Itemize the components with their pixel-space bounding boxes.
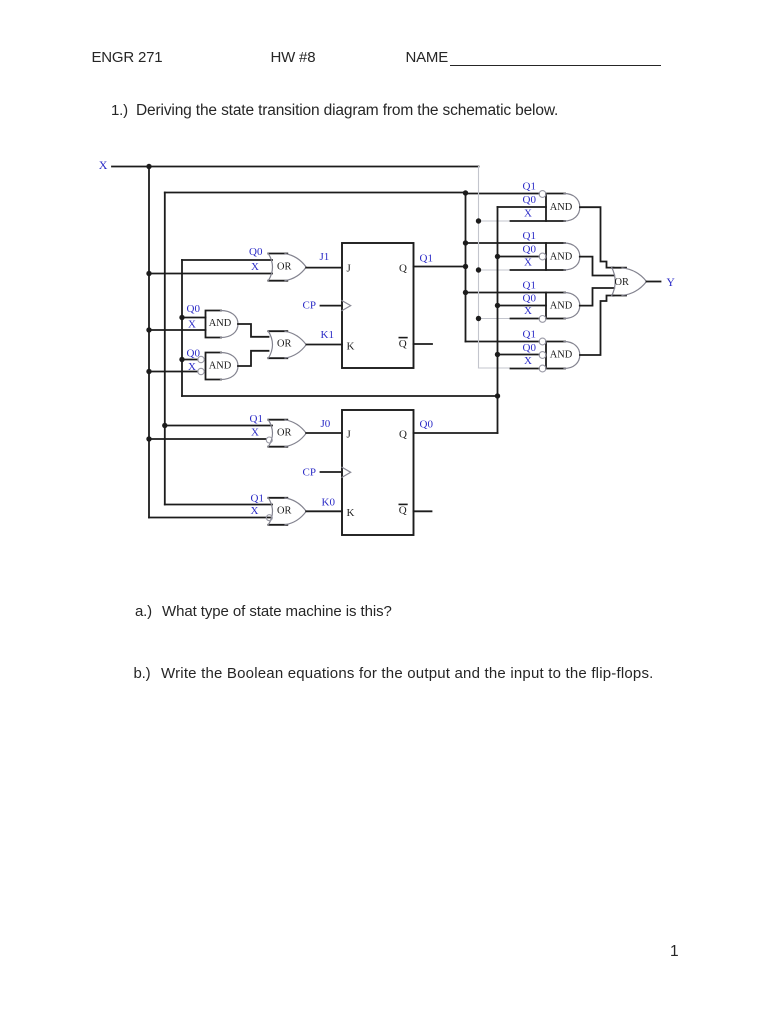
label X at U3 [251,261,259,273]
svg-text:Q: Q [399,338,407,350]
node junction X bus row3 [476,316,481,321]
node X input label [99,158,108,172]
svg-text:Q0: Q0 [523,194,537,206]
inverter bubble U5 input Q0 [198,356,204,362]
node Y output label [667,277,676,289]
wire A4 output to OR U9 [580,296,614,356]
label Q0 at U5 [187,348,201,360]
label J1 [320,251,330,263]
wire U5 output to U8 [238,351,269,366]
svg-text:AND: AND [550,251,573,262]
wire X dark seg row1 [511,220,547,222]
inverter bubble U6 input X [266,437,272,443]
wire Q0 input to AND U4 [182,317,206,319]
wire Q0 return bottom horizontal [182,395,498,397]
question 1 heading [111,103,128,118]
wire X dark seg row2 [511,269,547,271]
label Q0 at U3 [249,246,263,258]
header hw label [271,50,316,65]
label Q1 output [420,253,433,265]
question b [134,666,151,681]
svg-text:AND: AND [550,300,573,311]
inverter bubble A1 input Q1 [539,191,546,198]
label J0 [321,418,331,430]
label CP at U1 [303,300,316,312]
label Q0 at A2 [523,244,537,256]
node junction Q0 to AND U4 [179,315,184,320]
wire X top horizontal [112,166,479,168]
inverter bubble U5 input X [198,368,204,374]
svg-text:X: X [251,427,259,439]
question a [135,604,152,619]
wire Q0 right bus vertical [497,207,499,433]
wire CP input U2 [321,471,343,473]
svg-text:Q1: Q1 [250,413,263,425]
svg-text:Q: Q [399,505,407,517]
svg-text:X: X [251,505,259,517]
or-gate U7 (K0) [268,498,306,525]
and-gate U5 [206,353,239,380]
svg-text:CP: CP [303,300,316,312]
label X at A1 [524,208,532,220]
label X at U5 [188,361,196,373]
and-gate A3 [546,293,580,319]
node junction X to J1 OR [146,271,151,276]
svg-text:X: X [99,158,108,172]
svg-text:Q1: Q1 [420,253,433,265]
or-gate U3 (J1) [268,253,306,281]
wire X tap row1 (light) [479,220,511,222]
svg-text:OR: OR [277,339,292,350]
or-gate U8 (K1) [268,331,306,358]
node junction X bus row2 [476,267,481,272]
wire Q1 return top horizontal [165,192,466,194]
label Q1 at A4 [523,329,536,341]
wire Qbar stub U1 [414,343,433,345]
label CP at U2 [303,467,316,479]
svg-text:K: K [347,507,355,519]
page number [670,944,678,960]
label X at A3 [524,305,532,317]
svg-text:OR: OR [277,261,292,272]
wire X tap row4 (light) [479,367,511,369]
inverter bubble A4 input Q1 [539,338,546,345]
wire J1 output [306,267,342,269]
node junction X to J0 OR [146,436,151,441]
svg-text:X: X [251,261,259,273]
wire Q1 to AND A4 [466,341,540,343]
svg-text:AND: AND [550,350,573,361]
node junction Q0 bus row4 [495,352,500,357]
wire X input to AND U4 [149,329,206,331]
label X at U7 [251,505,259,517]
inverter bubble U7 input X [266,515,272,521]
node junction Q1 to J0 OR [162,423,167,428]
svg-text:X: X [188,319,196,331]
svg-text:Q1: Q1 [523,230,536,242]
wire X tap row2 (light) [479,269,511,271]
wire X dark seg row3 [511,318,540,320]
wire Q1 input to OR U7 [165,504,272,506]
label Q1 at A2 [523,230,536,242]
wire X tap row3 (light) [479,318,511,320]
svg-text:Q1: Q1 [523,181,536,193]
label Q0 at A3 [523,293,537,305]
svg-text:Q1: Q1 [523,329,536,341]
svg-text:J: J [347,263,352,275]
and-gate A2 [546,243,580,270]
svg-text:J: J [347,429,352,441]
svg-text:CP: CP [303,467,316,479]
wire K1 output [307,344,343,346]
wire Q1 return left vertical [164,193,166,505]
node junction X to AND1 [146,327,151,332]
wire A2 output to OR U9 [580,257,614,276]
wire Qbar stub U2 [414,510,432,512]
and-gate U4 [206,311,239,338]
wire Y output [647,281,661,283]
label K1 [321,329,334,341]
wire Q0 to AND A4 [498,354,540,356]
label Q1 at A1 [523,181,536,193]
svg-text:Q: Q [399,263,407,275]
svg-text:Q: Q [399,429,407,441]
and-gate A1 [546,194,580,222]
label Q0 at A1 [523,194,537,206]
inverter bubble A4 input Q0 [539,352,546,359]
label Q0 at U4 [187,303,201,315]
svg-text:X: X [524,208,532,220]
svg-text:OR: OR [277,505,292,516]
wire U4 output to U8 [238,324,269,337]
svg-text:AND: AND [209,318,232,329]
label Q0 at A4 [523,342,537,354]
flip-flop U2 (JK FF0) [342,410,414,535]
label Q1 at U7 [251,493,264,505]
svg-text:Q0: Q0 [420,419,434,431]
or-gate U9 (Y output) [612,267,647,296]
svg-text:K1: K1 [321,329,334,341]
wire Q1 right bus vertical [465,193,467,342]
node junction Q1 bus row2 [463,240,468,245]
flip-flop U1 (JK FF1) [342,243,414,368]
wire X input to OR U6 [149,438,266,440]
wire X left bus vertical [148,167,150,518]
svg-text:X: X [524,305,532,317]
and-gate A4 [546,342,580,369]
label X at A2 [524,257,532,269]
wire Q0 to AND A2 [498,256,540,258]
label K0 [322,497,336,509]
header course label [92,50,163,65]
svg-text:Q0: Q0 [187,348,201,360]
wire X dark seg row4 [511,368,540,370]
wire A1 output to OR U9 [580,207,614,267]
svg-text:X: X [188,361,196,373]
wire Q output U1 [414,266,466,268]
wire Q1 input to OR U6 [165,425,272,427]
label X at U6 [251,427,259,439]
node junction Q0 bus row3 [495,303,500,308]
node junction Q0 to AND U5 [179,357,184,362]
header name label [406,50,449,65]
node junction X bus row1 [476,218,481,223]
wire Q1 to AND A1 [466,193,540,195]
node junction Q0 bus row2 [495,254,500,259]
wire K0 output [306,510,342,512]
svg-text:K: K [347,340,355,352]
svg-text:Q0: Q0 [523,342,537,354]
wire J0 output [306,432,342,434]
node junction X to left bus [146,164,151,169]
inverter bubble A2 input Q0 [539,253,546,260]
wire A3 output to OR U9 [580,288,614,306]
wire CP input U1 [321,305,343,307]
svg-text:K0: K0 [322,497,336,509]
wire Q1 to AND A2 [466,242,547,244]
node junction Q1 bus row1 [463,190,468,195]
label Q1 at A3 [523,280,536,292]
node junction Q1 bus row3 [463,290,468,295]
wire X input to AND U5 [149,371,198,373]
label Q0 output [420,419,434,431]
svg-text:X: X [524,355,532,367]
svg-text:J0: J0 [321,418,331,430]
label X at A4 [524,355,532,367]
node junction Q1 bus Qout [463,264,468,269]
wire Q0 input to AND U5 [182,359,198,361]
inverter bubble A4 input X [539,365,546,372]
name underline [450,65,661,66]
wire X input to OR U3 [149,273,272,275]
wire Q0 to AND A1 [498,206,547,208]
node junction Q0 bus return [495,393,500,398]
or-gate U6 (J0) [268,420,306,447]
inverter bubble A3 input X [539,316,546,323]
label X at U4 [188,319,196,331]
svg-text:Q1: Q1 [523,280,536,292]
svg-text:Q0: Q0 [187,303,201,315]
svg-text:Y: Y [667,277,676,289]
svg-text:J1: J1 [320,251,330,263]
svg-text:AND: AND [209,361,232,372]
svg-text:AND: AND [550,202,573,213]
wire Q output U2 [414,432,498,434]
wire Q0 return left vertical [181,260,183,396]
svg-text:OR: OR [615,277,630,288]
wire X to K0 OR gate [149,517,270,519]
svg-text:Q1: Q1 [251,493,264,505]
node junction X to AND2 [146,369,151,374]
label Q1 at U6 [250,413,263,425]
wire Q1 to AND A3 [466,292,547,294]
svg-text:Q0: Q0 [249,246,263,258]
svg-text:OR: OR [277,427,292,438]
svg-text:Q0: Q0 [523,293,537,305]
wire Q0 to AND A3 [498,305,547,307]
wire Q0 input to OR U3 [182,259,272,261]
svg-text:X: X [524,257,532,269]
wire X right bus vertical (light) [478,167,480,369]
svg-text:Q0: Q0 [523,244,537,256]
